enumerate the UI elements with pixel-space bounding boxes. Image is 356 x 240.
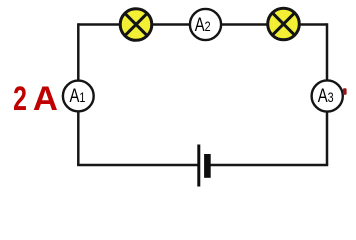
wire right side <box>326 23 329 165</box>
lamp L1 (circle with X) <box>120 9 152 41</box>
lamp L2 (circle with X) <box>268 8 300 40</box>
svg-text:A: A <box>33 80 58 118</box>
wire top side <box>78 23 327 26</box>
battery cell: short thick plate <box>204 154 211 178</box>
wire bottom right segment <box>210 164 328 167</box>
ammeter A2 <box>190 9 221 40</box>
label 2 A (red current annotation) <box>13 80 58 118</box>
wire bottom left segment <box>77 164 198 167</box>
svg-text:2: 2 <box>13 80 27 118</box>
ammeter A1 <box>63 81 94 112</box>
wire left side <box>77 23 80 165</box>
red mark (small artifact near A3) <box>343 88 347 95</box>
ammeter A3 <box>312 80 343 111</box>
battery cell: long thin plate <box>197 145 200 187</box>
